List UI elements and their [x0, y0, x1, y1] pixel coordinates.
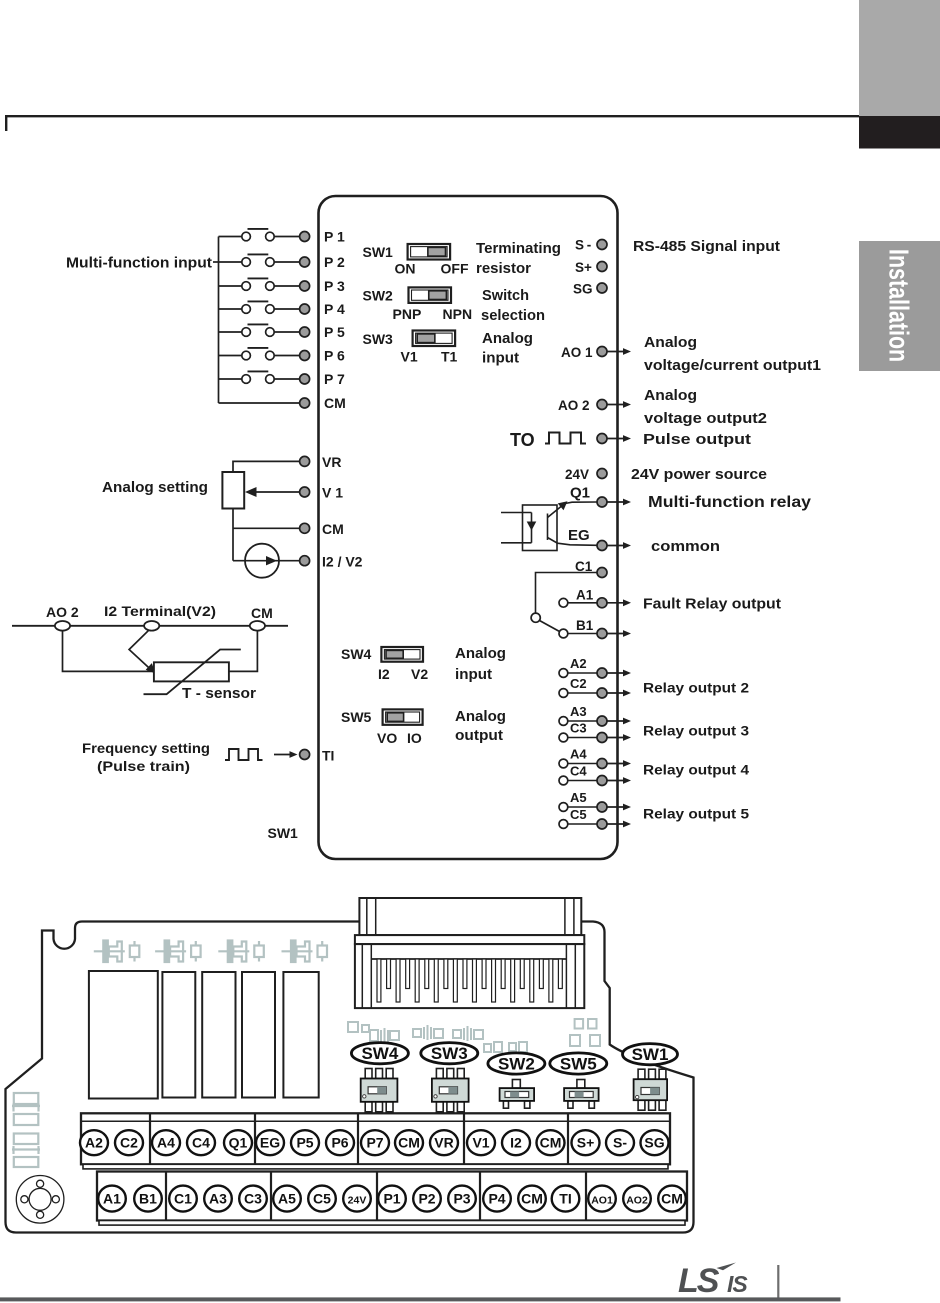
terminal Q1 — [597, 497, 607, 507]
svg-text:I2: I2 — [378, 666, 390, 682]
label SW2 oval — [488, 1053, 545, 1074]
pcb terminal P4 lower — [483, 1186, 511, 1212]
svg-text:CM: CM — [251, 605, 273, 621]
pcb terminal P1 lower — [378, 1186, 406, 1212]
pulse train symbol — [225, 749, 263, 760]
pcb terminal B1 lower — [134, 1186, 162, 1212]
pcb terminal C5 lower — [308, 1186, 336, 1212]
svg-text:Switch: Switch — [482, 288, 529, 304]
switch contact P1 — [219, 236, 242, 238]
svg-text:VR: VR — [322, 454, 341, 470]
pcb terminal A2 upper — [80, 1130, 108, 1155]
svg-text:output: output — [455, 728, 503, 744]
svg-text:Analog: Analog — [644, 388, 697, 404]
arrow to TI — [274, 754, 291, 756]
svg-text:V1: V1 — [401, 349, 418, 365]
svg-text:C5: C5 — [570, 807, 587, 822]
svg-text:P1: P1 — [383, 1190, 400, 1206]
wire C1 to relay pole — [536, 573, 598, 614]
svg-text:PNP: PNP — [393, 306, 422, 322]
svg-text:I2 Terminal(V2): I2 Terminal(V2) — [104, 603, 216, 619]
svg-text:V2: V2 — [411, 666, 428, 682]
svg-text:input: input — [455, 667, 492, 683]
svg-text:T - sensor: T - sensor — [182, 686, 256, 702]
svg-text:Q1: Q1 — [570, 485, 590, 502]
contact A2 — [559, 669, 568, 678]
pcb terminal C2 upper — [115, 1130, 143, 1155]
silkscreen footprint — [155, 941, 201, 963]
contact A3 — [559, 717, 568, 726]
current source — [233, 560, 299, 562]
connector pins — [377, 959, 381, 1002]
svg-text:T1: T1 — [441, 349, 458, 365]
svg-text:SW2: SW2 — [363, 288, 394, 304]
silkscreen footprint — [94, 941, 140, 963]
svg-text:C4: C4 — [192, 1134, 210, 1150]
svg-text:common: common — [651, 538, 720, 555]
svg-text:24V: 24V — [348, 1194, 367, 1206]
switch SW2 (pcb) — [512, 1080, 520, 1089]
label SW1 oval — [623, 1044, 678, 1065]
potentiometer VR — [233, 461, 299, 472]
input bus wire — [218, 237, 220, 404]
svg-text:Q1: Q1 — [229, 1134, 248, 1150]
pcb terminal A4 upper — [152, 1130, 180, 1155]
sensor bus wire — [12, 625, 288, 627]
terminal EG — [597, 541, 607, 551]
svg-text:Pulse output: Pulse output — [643, 432, 751, 448]
terminal P7 — [300, 374, 310, 384]
relay arm wire — [540, 621, 560, 632]
control board outline — [319, 196, 618, 859]
photocoupler U1 — [523, 505, 558, 551]
pcb terminal A3 lower — [204, 1186, 232, 1212]
thermistor T-sensor — [154, 662, 229, 681]
Installation side tab — [859, 241, 940, 371]
footer rule — [0, 1297, 841, 1301]
terminal P4 — [300, 304, 310, 314]
pcb terminal A5 lower — [273, 1186, 301, 1212]
svg-text:voltage/current output1: voltage/current output1 — [644, 358, 821, 374]
footer divider — [777, 1265, 779, 1300]
pcb terminal CM lower — [658, 1186, 686, 1212]
svg-text:VO: VO — [377, 730, 397, 746]
relay K2 — [162, 972, 195, 1098]
terminal A4 — [597, 759, 607, 769]
svg-text:C1: C1 — [174, 1190, 192, 1206]
wiper wire V1 — [252, 491, 299, 493]
svg-text:AO2: AO2 — [626, 1194, 648, 1206]
svg-text:selection: selection — [481, 308, 545, 324]
pcb terminal P6 upper — [326, 1130, 354, 1155]
switch contact P5 — [219, 331, 242, 333]
silkscreen edge pads — [12, 1093, 40, 1167]
contact A4 — [559, 759, 568, 768]
svg-text:A2: A2 — [85, 1134, 103, 1150]
svg-text:TI: TI — [322, 748, 334, 764]
terminal P3 — [300, 281, 310, 291]
header black block — [859, 116, 940, 149]
svg-text:IO: IO — [407, 730, 422, 746]
svg-text:S-: S- — [613, 1134, 627, 1150]
svg-text:S+: S+ — [577, 1134, 595, 1150]
svg-text:resistor: resistor — [476, 261, 531, 277]
switch SW5 (pcb) — [577, 1080, 585, 1089]
connector body — [355, 944, 584, 1008]
svg-text:SW1: SW1 — [632, 1045, 669, 1064]
switch SW3 (pcb) — [436, 1069, 443, 1079]
pcb terminal C4 upper — [187, 1130, 215, 1155]
pcb terminal CM upper — [395, 1130, 423, 1155]
svg-text:NPN: NPN — [443, 306, 473, 322]
label SW3 oval — [421, 1043, 478, 1064]
switch contact P6 — [219, 355, 242, 357]
svg-text:C3: C3 — [570, 721, 587, 736]
terminal C5 — [597, 819, 607, 829]
svg-text:A2: A2 — [570, 656, 587, 671]
svg-text:P6: P6 — [331, 1134, 348, 1150]
svg-text:SG: SG — [644, 1134, 664, 1150]
pcb terminal EG upper — [256, 1130, 284, 1155]
svg-text:SW4: SW4 — [361, 1044, 398, 1063]
terminal CM — [300, 398, 310, 408]
terminal V1 — [300, 487, 310, 497]
pcb terminal C3 lower — [239, 1186, 267, 1212]
pcb terminal VR upper — [430, 1130, 458, 1155]
svg-text:24V: 24V — [565, 467, 589, 482]
wire AO2 down — [63, 631, 154, 672]
silkscreen bits — [348, 1019, 600, 1052]
svg-text:Analog: Analog — [482, 331, 533, 347]
silkscreen footprint — [218, 941, 263, 963]
svg-text:SG: SG — [573, 282, 593, 297]
svg-text:AO 1: AO 1 — [561, 345, 593, 360]
svg-text:B1: B1 — [139, 1190, 157, 1206]
svg-text:CM: CM — [661, 1190, 683, 1206]
terminal C3 — [597, 733, 607, 743]
lower terminal block — [97, 1172, 687, 1221]
svg-text:AO1: AO1 — [591, 1194, 613, 1206]
svg-text:IS: IS — [727, 1271, 748, 1297]
pcb terminal P7 upper — [361, 1130, 389, 1155]
svg-text:Relay output 2: Relay output 2 — [643, 681, 749, 696]
wire CM — [219, 402, 300, 404]
terminal VR — [300, 456, 310, 466]
svg-text:AO 2: AO 2 — [46, 604, 79, 620]
pcb terminal P2 lower — [413, 1186, 441, 1212]
wire label lead — [213, 261, 219, 263]
svg-text:SW5: SW5 — [560, 1055, 597, 1074]
terminal P6 — [300, 351, 310, 361]
svg-text:CM: CM — [324, 395, 346, 411]
transistor collector wire to Q1 — [548, 507, 562, 518]
svg-text:P 5: P 5 — [324, 324, 345, 340]
svg-text:P 3: P 3 — [324, 278, 345, 294]
terminal B1 — [597, 629, 607, 639]
svg-text:Frequency setting: Frequency setting — [82, 740, 210, 756]
relay K1 — [89, 971, 158, 1099]
pcb terminal SG upper — [641, 1130, 669, 1155]
svg-text:CM: CM — [398, 1134, 420, 1150]
pcb terminal TI lower — [552, 1186, 580, 1212]
svg-text:LS: LS — [678, 1262, 720, 1300]
svg-text:EG: EG — [260, 1134, 280, 1150]
header gray block — [859, 0, 940, 116]
svg-text:C3: C3 — [244, 1190, 262, 1206]
node CM — [250, 621, 265, 631]
svg-text:Fault Relay output: Fault Relay output — [643, 597, 781, 613]
svg-text:OFF: OFF — [441, 261, 469, 277]
svg-text:(Pulse train): (Pulse train) — [97, 758, 190, 774]
terminal A3 — [597, 716, 607, 726]
svg-text:P 2: P 2 — [324, 254, 345, 270]
svg-text:C2: C2 — [120, 1134, 138, 1150]
header rule — [6, 116, 859, 131]
contact C3 — [559, 733, 568, 742]
svg-text:A4: A4 — [157, 1134, 175, 1150]
svg-text:S+: S+ — [575, 260, 592, 275]
svg-text:P4: P4 — [488, 1190, 505, 1206]
svg-text:EG: EG — [568, 527, 590, 544]
wire pot to CM/I2 — [232, 509, 234, 561]
contact C2 — [559, 689, 568, 698]
svg-text:24V power source: 24V power source — [631, 467, 767, 483]
terminal P1 — [300, 232, 310, 242]
switch SW4 (pcb) — [365, 1069, 372, 1079]
svg-text:AO 2: AO 2 — [558, 398, 590, 413]
terminal P2 — [300, 257, 310, 267]
pcb terminal S- upper — [606, 1130, 634, 1155]
svg-text:SW4: SW4 — [341, 646, 372, 662]
svg-text:SW5: SW5 — [341, 709, 372, 725]
svg-text:S -: S - — [575, 238, 591, 253]
terminal C1 — [597, 568, 607, 578]
terminal A5 — [597, 802, 607, 812]
wire CM down — [229, 631, 258, 672]
relay pole contact — [531, 613, 540, 622]
svg-text:SW1: SW1 — [363, 244, 394, 260]
svg-text:Analog: Analog — [455, 646, 506, 662]
svg-text:C5: C5 — [313, 1190, 331, 1206]
label SW5 oval — [550, 1053, 607, 1074]
transistor emitter wire to EG — [548, 538, 598, 546]
pcb terminal CM lower — [518, 1186, 546, 1212]
svg-text:SW1: SW1 — [268, 825, 299, 841]
pcb terminal AO1 lower — [588, 1186, 616, 1212]
svg-text:C4: C4 — [570, 764, 587, 779]
node I2 — [144, 621, 159, 631]
label SW4 oval — [351, 1043, 408, 1064]
svg-text:A5: A5 — [570, 790, 587, 805]
pcb terminal P3 lower — [448, 1186, 476, 1212]
terminal I2/V2 — [300, 556, 310, 566]
PCB board outline — [6, 922, 694, 1233]
pcb terminal S+ upper — [572, 1130, 600, 1155]
relay K5 — [283, 972, 318, 1098]
svg-text:V 1: V 1 — [322, 485, 343, 501]
contact C5 — [559, 820, 568, 829]
svg-text:P7: P7 — [366, 1134, 383, 1150]
pcb terminal 24V lower — [343, 1186, 371, 1212]
svg-text:A1: A1 — [576, 588, 594, 603]
svg-text:Terminating: Terminating — [476, 241, 561, 257]
pcb terminal C1 lower — [169, 1186, 197, 1212]
svg-text:TI: TI — [559, 1190, 571, 1206]
upper terminal block — [81, 1113, 670, 1164]
pcb terminal V1 upper — [467, 1130, 495, 1155]
svg-text:P5: P5 — [296, 1134, 313, 1150]
svg-text:V1: V1 — [472, 1134, 489, 1150]
svg-text:P2: P2 — [418, 1190, 435, 1206]
svg-text:ON: ON — [395, 261, 416, 277]
svg-text:A3: A3 — [209, 1190, 227, 1206]
svg-text:Analog: Analog — [455, 709, 506, 725]
switch SW1 (pcb) — [638, 1069, 645, 1079]
silkscreen footprint — [282, 941, 328, 963]
svg-text:Relay output 5: Relay output 5 — [643, 807, 750, 822]
terminal C4 — [597, 776, 607, 786]
svg-text:SW3: SW3 — [363, 331, 394, 347]
svg-text:B1: B1 — [576, 618, 594, 633]
svg-text:SW2: SW2 — [498, 1055, 535, 1074]
pcb terminal CM upper — [537, 1130, 565, 1155]
svg-text:TO: TO — [510, 430, 535, 450]
svg-text:CM: CM — [322, 521, 344, 537]
svg-text:RS-485 Signal input: RS-485 Signal input — [633, 239, 780, 255]
LSIS logo — [678, 1262, 748, 1300]
terminal CM — [300, 523, 310, 533]
wiper wire from I2 — [129, 630, 150, 669]
pcb terminal A1 lower — [98, 1186, 126, 1212]
connector flange — [355, 935, 584, 944]
switch contact P7 — [219, 378, 242, 380]
relay K3 — [202, 972, 235, 1098]
contact A5 — [559, 803, 568, 812]
svg-text:voltage output2: voltage output2 — [644, 411, 767, 427]
svg-text:I2 / V2: I2 / V2 — [322, 554, 363, 570]
terminal TI — [300, 750, 310, 760]
terminal P5 — [300, 327, 310, 337]
terminal C2 — [597, 688, 607, 698]
svg-text:CM: CM — [540, 1134, 562, 1150]
pcb terminal P5 upper — [291, 1130, 319, 1155]
svg-text:I2: I2 — [510, 1134, 522, 1150]
svg-text:A5: A5 — [278, 1190, 296, 1206]
contact B1 — [559, 629, 568, 638]
svg-text:CM: CM — [521, 1190, 543, 1206]
pcb terminal I2 upper — [502, 1130, 530, 1155]
mounting hole — [16, 1176, 64, 1224]
svg-text:Analog: Analog — [644, 335, 697, 351]
switch contact P3 — [219, 285, 242, 287]
terminal A2 — [597, 668, 607, 678]
svg-text:P 4: P 4 — [324, 301, 345, 317]
svg-text:VR: VR — [434, 1134, 453, 1150]
contact A1 — [559, 598, 568, 607]
svg-text:P 7: P 7 — [324, 371, 345, 387]
connector header top — [359, 898, 581, 935]
svg-text:Installation: Installation — [883, 249, 914, 362]
pcb terminal Q1 upper — [224, 1130, 252, 1155]
terminal A1 — [597, 598, 607, 608]
svg-text:P3: P3 — [453, 1190, 470, 1206]
svg-text:A1: A1 — [103, 1190, 121, 1206]
svg-text:Relay output 4: Relay output 4 — [643, 763, 750, 778]
svg-text:C1: C1 — [575, 559, 593, 574]
svg-text:SW3: SW3 — [431, 1044, 468, 1063]
contact C4 — [559, 776, 568, 785]
switch contact P4 — [219, 308, 242, 310]
svg-text:P 6: P 6 — [324, 348, 345, 364]
svg-text:input: input — [482, 351, 519, 367]
svg-text:Relay output 3: Relay output 3 — [643, 724, 750, 739]
svg-text:C2: C2 — [570, 676, 587, 691]
svg-text:Analog setting: Analog setting — [102, 479, 208, 496]
svg-text:A3: A3 — [570, 704, 587, 719]
node AO2 — [55, 621, 70, 631]
svg-text:P 1: P 1 — [324, 229, 345, 245]
relay K4 — [242, 972, 275, 1098]
svg-text:A4: A4 — [570, 747, 587, 762]
svg-text:Multi-function input: Multi-function input — [66, 255, 212, 272]
switch contact P2 — [219, 261, 242, 263]
pcb terminal AO2 lower — [623, 1186, 651, 1212]
svg-text:Multi-function relay: Multi-function relay — [648, 494, 811, 511]
